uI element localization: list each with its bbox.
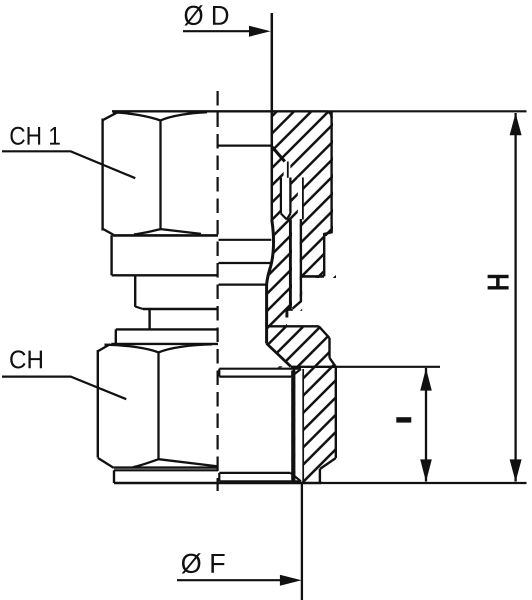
- neck left edge: [134, 275, 136, 307]
- upper hex / flange top line: [113, 234, 218, 237]
- bore step line 2: [219, 262, 273, 264]
- dim I bottom arrowhead: [420, 459, 432, 481]
- hatched cross-section base field: [266, 112, 336, 484]
- bore step line 1: [219, 239, 272, 241]
- lower hex left edge: [97, 350, 99, 458]
- ferrule slot right wall: [289, 178, 291, 214]
- white mask: bore left of cone curve: [266, 220, 274, 285]
- leader CH label: [10, 350, 42, 368]
- lower hex bottom-left chamfer: [98, 458, 114, 468]
- lower hex bottom chamfer line right: [159, 459, 219, 466]
- port bore top chamfer: [291, 369, 301, 377]
- leader CH line: [2, 377, 126, 400]
- lower hex bottom line: [113, 466, 218, 468]
- dim OD arrow line: [183, 30, 252, 32]
- bottom washer left edge: [113, 470, 115, 483]
- ferrule V right diagonal: [287, 214, 291, 220]
- dim I line: [425, 368, 427, 482]
- collar inner diagonal: [267, 344, 291, 367]
- lower hex top line: [111, 343, 218, 345]
- port bore bottom chamfer: [291, 473, 301, 481]
- port thread wall thick: [291, 371, 295, 481]
- upper body step to skirt: [324, 230, 331, 276]
- flange left edge: [110, 235, 112, 275]
- white mask: outside right of upper body: [327, 109, 532, 231]
- dim OF label: [182, 553, 225, 573]
- white mask: step notch right of upper skirt: [325, 236, 532, 275]
- white mask: below upper body bottom face: [302, 278, 532, 327]
- upper hex left edge: [101, 119, 103, 231]
- leader CH 1 label: [10, 127, 59, 145]
- upper hex bottom-left chamfer: [103, 229, 114, 235]
- dim I label (rotated I as rect): [396, 417, 411, 422]
- dim H line: [514, 113, 516, 482]
- cone seat thick diagonal: [272, 147, 285, 162]
- collar flare to port: [330, 358, 336, 367]
- bottom face line of fitting: [114, 482, 321, 485]
- white mask: right of middle collar: [319, 325, 532, 366]
- port top face: [291, 366, 336, 368]
- upper hex top chamfer arc left: [113, 112, 161, 120]
- upper body top-right corner chamfer: [327, 111, 332, 118]
- upper bore wall (OD extension continues): [271, 13, 274, 222]
- tube outer wall upper thin: [302, 178, 304, 220]
- upper bore bottom line: [219, 144, 272, 146]
- collar top face: [267, 325, 319, 327]
- neck bottom line: [143, 308, 218, 310]
- dim OF arrow line: [177, 579, 282, 581]
- port outer bottom chamfer: [320, 458, 336, 469]
- white mask: triangle left of collar inner diagonal: [266, 344, 290, 366]
- port bore bottom line lower: [219, 480, 301, 482]
- bottom washer top line (left): [114, 469, 218, 471]
- upper body outer wall: [330, 111, 332, 231]
- stem bottom face: [287, 309, 293, 311]
- dim OF arrowhead: [280, 575, 302, 586]
- white mask: bottom port thread gap: [295, 370, 302, 481]
- tube outer wall: [293, 219, 301, 309]
- bore step line 3: [219, 284, 267, 286]
- leader CH 1 line: [2, 151, 135, 178]
- dim H top arrowhead: [510, 113, 522, 135]
- dim H bottom arrowhead: [510, 459, 522, 481]
- thin tube top line: [287, 162, 289, 178]
- ferrule slot left wall: [280, 178, 282, 214]
- port bore top end cap: [218, 369, 220, 377]
- white mask: top bore right sliver: [266, 113, 271, 145]
- dim H label (rotated H as rects): [488, 275, 509, 290]
- dim OD label: [184, 5, 228, 25]
- lower washer top line: [116, 328, 218, 330]
- dim I top arrowhead: [420, 368, 432, 390]
- lower washer left edge: [115, 329, 117, 344]
- white mask: ferrule slot: [282, 178, 290, 214]
- lower hex facet line: [157, 352, 159, 459]
- lower hex top chamfer line right: [159, 344, 213, 352]
- cone curve (body inner profile): [267, 220, 274, 344]
- port bore bottom line upper: [219, 472, 290, 474]
- collar top-right chamfer: [319, 326, 330, 338]
- H top extension line: [327, 110, 527, 112]
- centerline: [217, 91, 219, 491]
- port outer wall: [335, 367, 337, 458]
- ferrule V left diagonal: [281, 214, 287, 220]
- H bottom extension line: [321, 482, 527, 484]
- collar outer wall: [328, 338, 330, 358]
- port thread major line: [302, 369, 304, 481]
- upper hex bottom chamfer line right: [161, 229, 201, 234]
- port bore top line upper: [219, 368, 301, 370]
- upper hex top-left corner arc: [103, 112, 118, 120]
- port outer lower wall: [319, 469, 321, 483]
- small step left edge: [148, 309, 150, 329]
- skirt bottom face: [302, 275, 325, 278]
- white mask: right of bottom port outer wall: [321, 368, 532, 481]
- upper hex top chamfer arc right: [161, 112, 208, 120]
- dim OD arrowhead: [249, 26, 271, 37]
- I top extension line: [336, 366, 440, 368]
- port bore top line lower: [219, 376, 291, 378]
- flange bottom line: [112, 274, 218, 276]
- white mask: gap under stem above collar: [287, 311, 320, 326]
- lower hex bottom chamfer arc left: [133, 459, 159, 467]
- dim OF extension line: [301, 483, 303, 600]
- white mask: tube bore upper sliver: [298, 178, 302, 221]
- tube inner wall thick: [287, 220, 291, 318]
- white mask: bore left of ferrule wall: [266, 147, 271, 223]
- lower hex top-left corner arc: [98, 344, 110, 351]
- white mask: pocket above slot: [284, 163, 291, 179]
- neck bottom chamfer: [135, 307, 143, 310]
- lower hex top chamfer arc left: [105, 345, 159, 353]
- white mask: tube bore channel: [292, 220, 300, 308]
- white mask: bottom port bore: [266, 368, 291, 481]
- port bore bottom end cap: [218, 473, 220, 481]
- upper hex bottom chamfer arc left: [134, 229, 161, 234]
- top face line of fitting: [112, 110, 327, 112]
- upper hex facet line: [159, 121, 161, 230]
